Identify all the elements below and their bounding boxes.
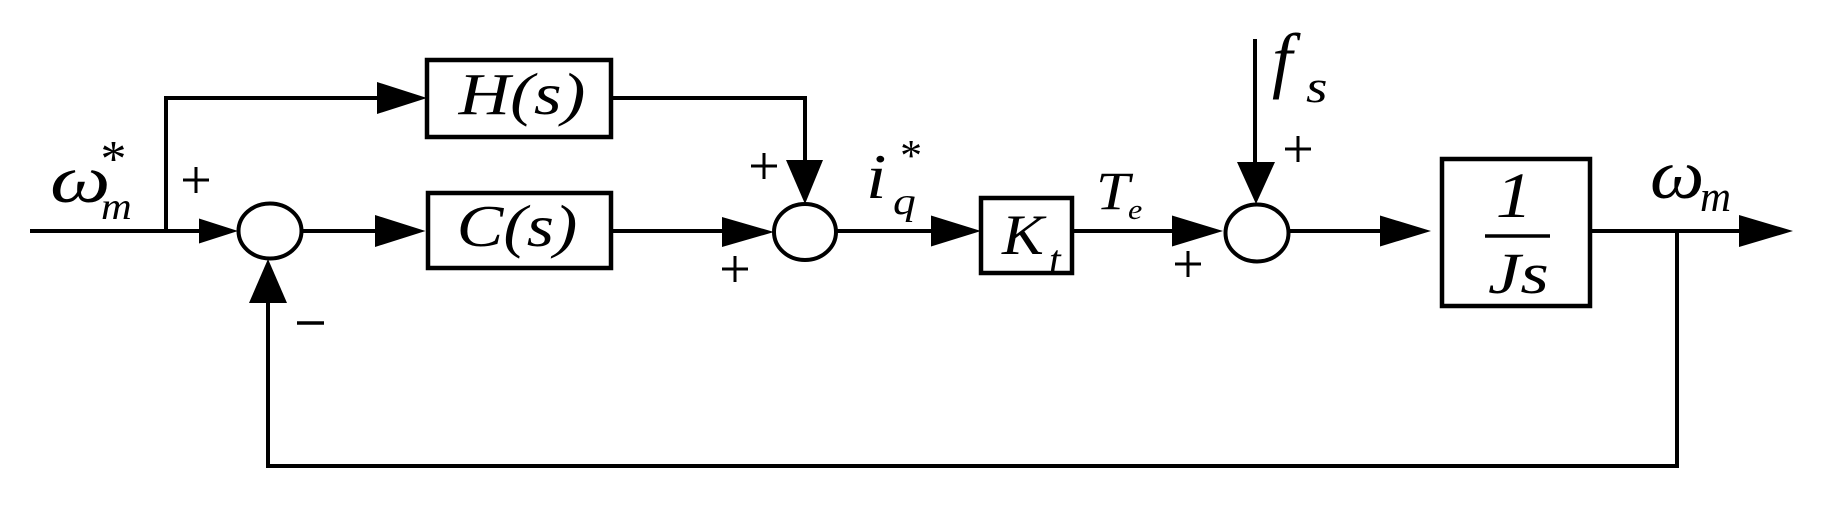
svg-text:C(s): C(s) bbox=[457, 193, 578, 259]
arrowhead into summing junction 3 bbox=[1172, 216, 1223, 247]
wire: summing junction 1 to C(s) bbox=[301, 229, 382, 233]
label: plus (right of fs arrow) bbox=[1285, 136, 1311, 162]
arrowhead into summing junction 1 bbox=[199, 219, 238, 244]
wire: H(s) output bbox=[611, 96, 805, 100]
arrowhead into H(s) bbox=[377, 82, 427, 114]
svg-text:1: 1 bbox=[1496, 160, 1532, 232]
block 1/Js bbox=[1442, 159, 1590, 306]
label: plus (above summing junction 2) bbox=[751, 153, 777, 179]
arrowhead: output bbox=[1739, 215, 1793, 247]
node: branch point to H(s) bbox=[164, 96, 168, 233]
wire: feedback up leg bbox=[266, 295, 270, 468]
wire: down leg into summing junction 2 bbox=[803, 96, 807, 168]
svg-text:e: e bbox=[1128, 194, 1142, 226]
wire: feedback bottom bbox=[266, 464, 1679, 468]
wire: branch to H(s) input bbox=[164, 96, 385, 100]
wire: summing junction 3 to 1/Js bbox=[1288, 229, 1390, 233]
svg-text:m: m bbox=[101, 185, 132, 227]
arrowhead down into summing junction 2 bbox=[786, 160, 823, 204]
svg-text:i: i bbox=[866, 141, 886, 212]
svg-text:Js: Js bbox=[1488, 242, 1549, 306]
label: plus (below summing junction 3) bbox=[1175, 251, 1201, 277]
svg-text:m: m bbox=[1700, 174, 1731, 221]
arrowhead up into summing junction 1 (feedback) bbox=[249, 259, 287, 303]
arrowhead into Kt bbox=[931, 216, 981, 247]
wire: summing junction 2 to Kt bbox=[836, 229, 940, 233]
label: plus (input of summing junction 1) bbox=[183, 167, 209, 193]
block Kt bbox=[981, 198, 1072, 284]
block H(s) bbox=[427, 60, 611, 137]
label: minus (feedback into summing junction 1) bbox=[297, 321, 324, 325]
label: fs bbox=[1272, 19, 1327, 112]
arrowhead down into summing junction 3 (fs) bbox=[1237, 162, 1275, 204]
label: plus (below summing junction 2) bbox=[722, 256, 748, 282]
svg-text:t: t bbox=[1049, 238, 1062, 284]
svg-text:q: q bbox=[893, 181, 916, 223]
svg-text:f: f bbox=[1272, 19, 1301, 100]
block C(s) bbox=[428, 193, 611, 268]
summing junction 1 bbox=[239, 204, 302, 259]
arrowhead into summing junction 2 bbox=[722, 217, 774, 247]
label: omega_m output bbox=[1650, 135, 1731, 221]
svg-text:s: s bbox=[1306, 61, 1327, 112]
summing junction 2 bbox=[774, 204, 836, 260]
svg-text:ω: ω bbox=[1650, 135, 1704, 213]
svg-text:K: K bbox=[1001, 204, 1047, 267]
label: Te bbox=[1096, 162, 1142, 226]
label: iq* bbox=[866, 131, 920, 223]
wire: fs input vertical bbox=[1253, 39, 1257, 168]
arrowhead into 1/Js bbox=[1380, 216, 1431, 247]
svg-text:*: * bbox=[898, 131, 920, 180]
svg-text:*: * bbox=[98, 131, 124, 188]
summing junction 3 bbox=[1226, 205, 1289, 262]
wire: input line bbox=[30, 229, 210, 233]
wire: 1/Js output bbox=[1590, 229, 1748, 233]
node: output branch point bbox=[1675, 231, 1679, 468]
label: omega_m* reference input bbox=[50, 131, 132, 227]
arrowhead into C(s) bbox=[375, 215, 426, 247]
wire: Kt output bbox=[1072, 229, 1180, 233]
svg-text:H(s): H(s) bbox=[458, 63, 586, 128]
wire: C(s) output bbox=[611, 229, 730, 233]
